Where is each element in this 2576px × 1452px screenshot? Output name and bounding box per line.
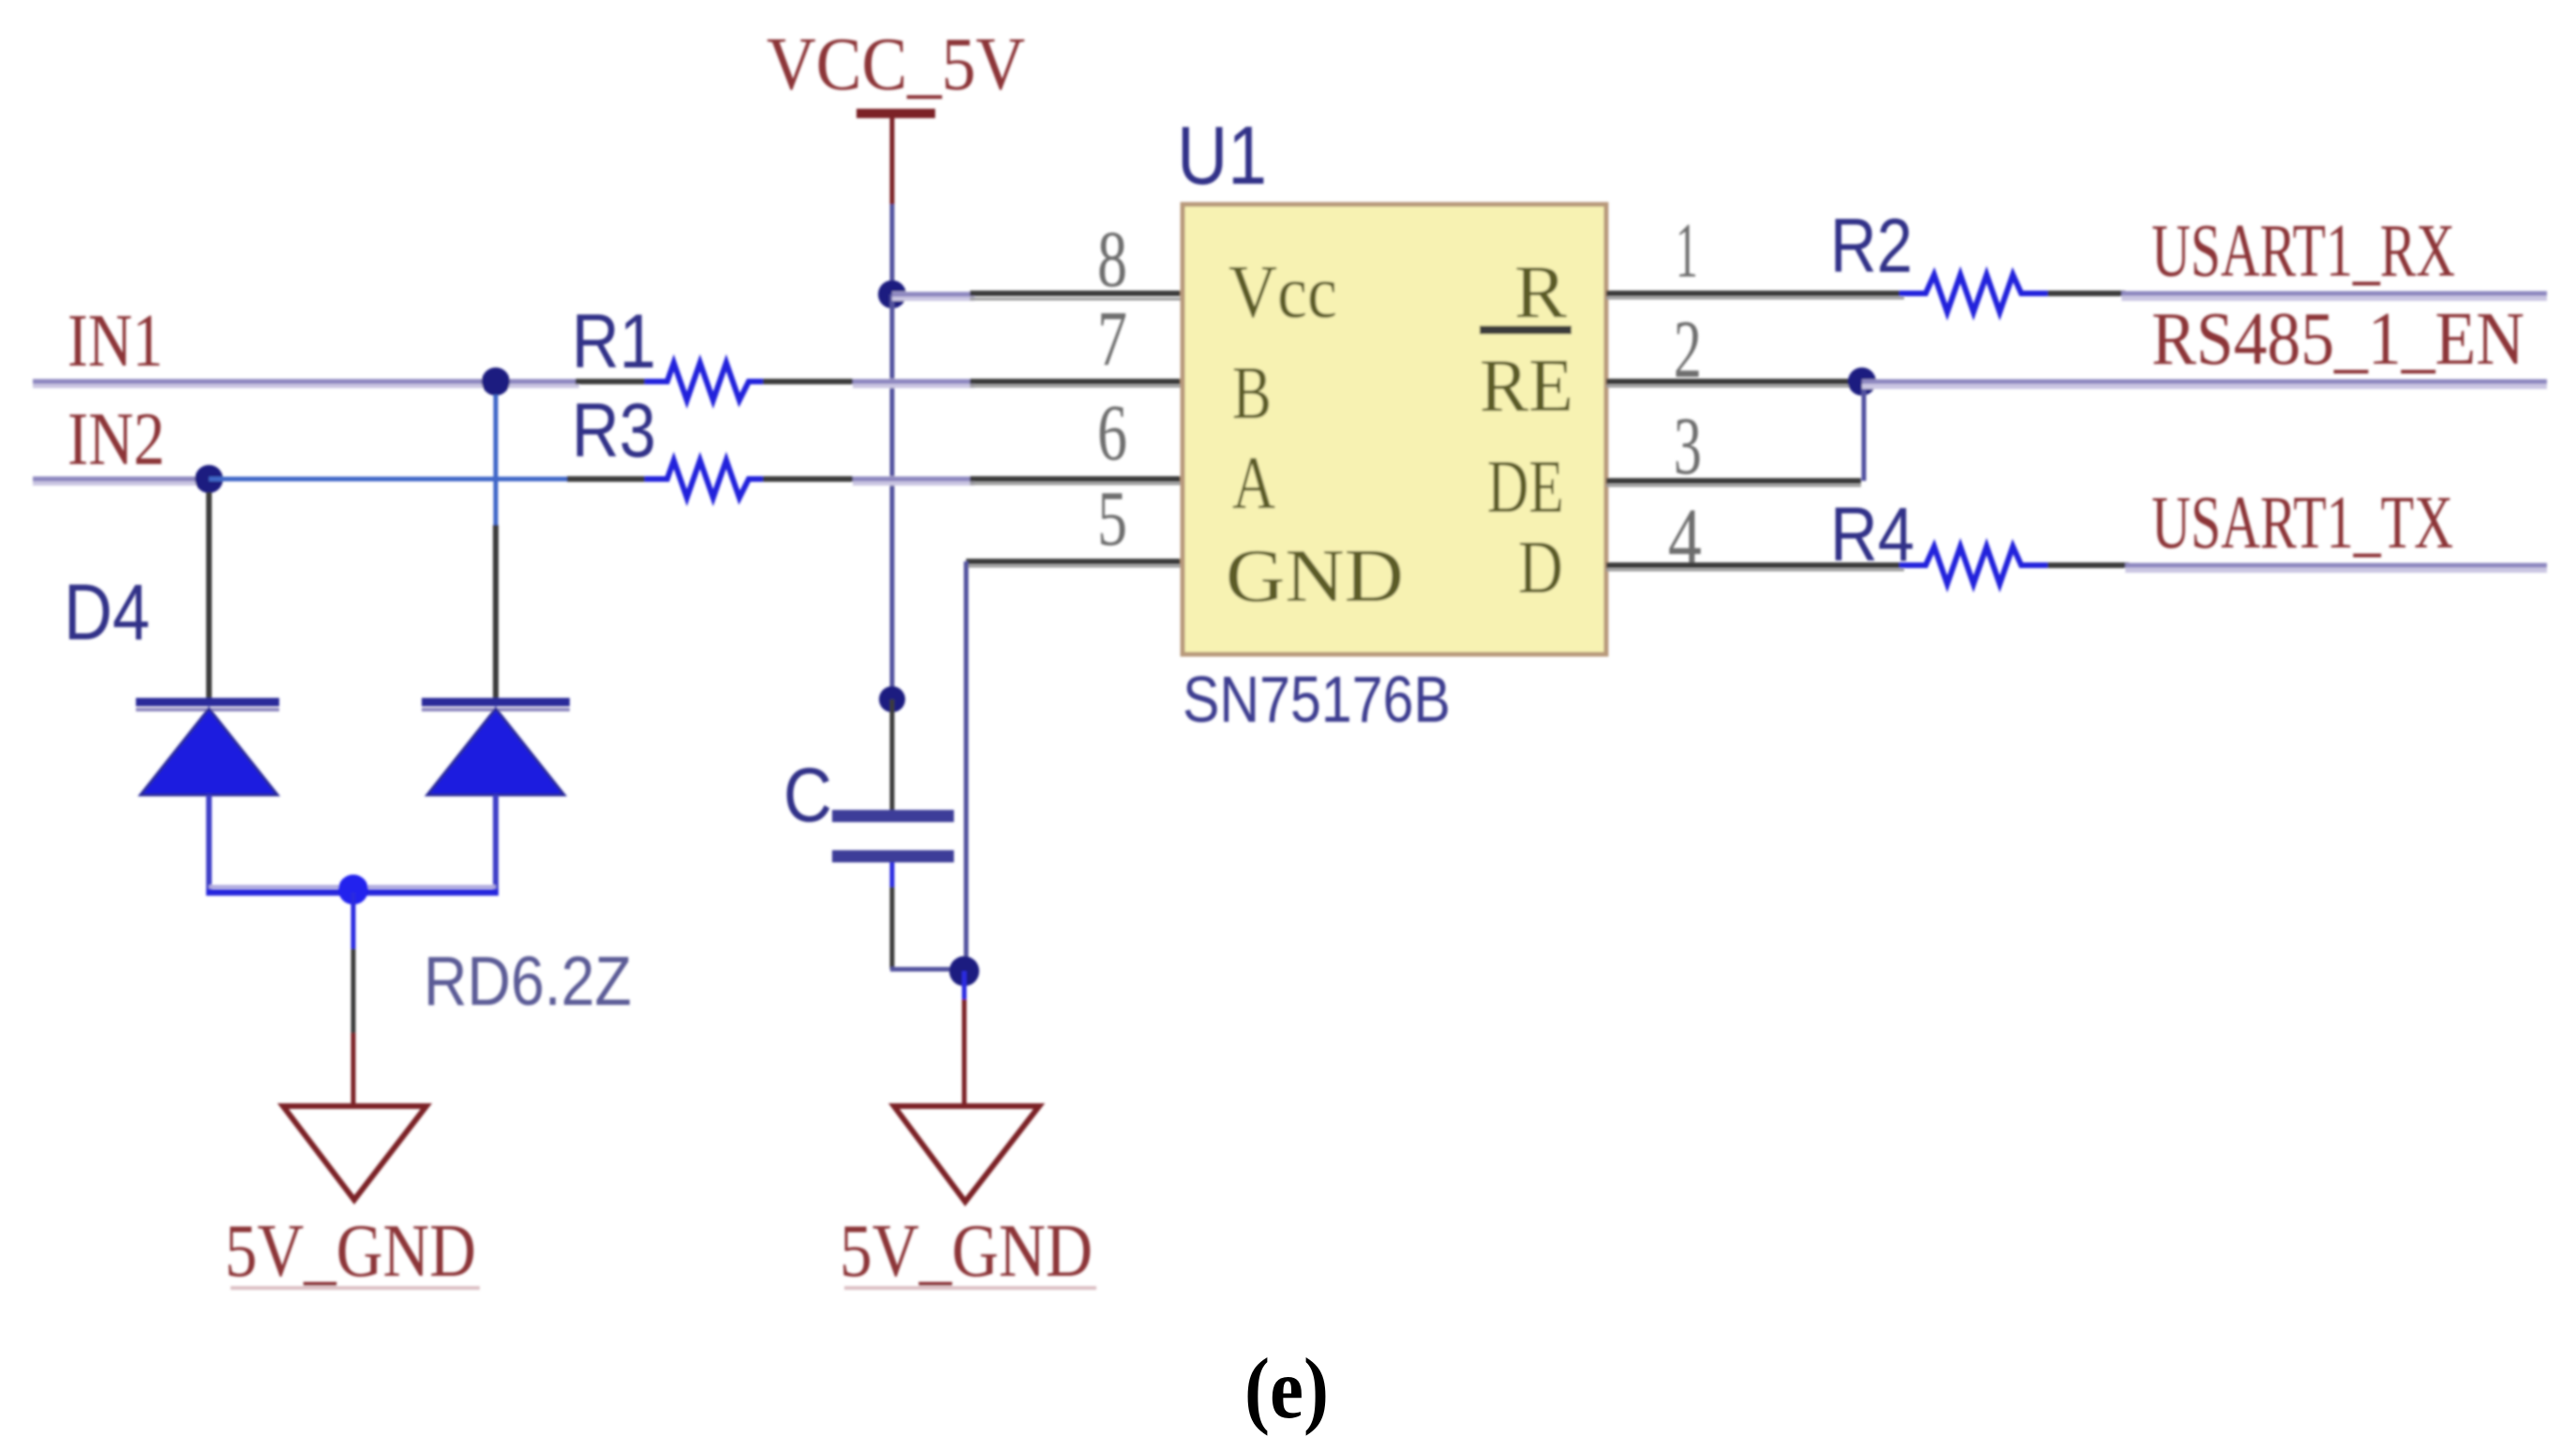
- diode D4a triangle: [141, 709, 277, 795]
- svg-text:D4: D4: [64, 568, 150, 656]
- junction above capacitor: [879, 686, 905, 712]
- svg-text:RS485_1_EN: RS485_1_EN: [2152, 298, 2524, 381]
- svg-text:DE: DE: [1487, 446, 1564, 529]
- svg-text:A: A: [1232, 442, 1275, 525]
- capacitor C bottom plate: [832, 850, 954, 862]
- wire IN2 purple: [33, 476, 211, 486]
- power symbol VCC_5V bar: [856, 109, 935, 118]
- svg-text:RE: RE: [1480, 345, 1573, 427]
- wire VCC vertical maroon: [890, 118, 895, 204]
- wire cap bottom lead blue: [890, 862, 895, 887]
- svg-text:R3: R3: [572, 388, 656, 473]
- wire D4a anode down: [206, 795, 212, 892]
- wire pin4 black: [1606, 562, 1904, 568]
- pin name RE overline: [1480, 326, 1571, 335]
- wire cap bottom lead black: [890, 887, 895, 969]
- diode D4a cathode bar: [136, 698, 279, 707]
- wire pin1 black after R2: [2047, 291, 2125, 296]
- wire VCC vertical slate: [890, 204, 895, 294]
- wire IN2 blue segment: [209, 477, 570, 482]
- wire pin2 black: [1606, 385, 1862, 388]
- wire row B purple mid: [853, 379, 975, 388]
- wire IN1 purple: [33, 379, 579, 388]
- wire IN2 junction down: [206, 492, 212, 699]
- wire D4b anode down: [493, 795, 499, 892]
- svg-text:IN1: IN1: [67, 300, 163, 382]
- svg-text:5: 5: [1097, 475, 1127, 562]
- wire USART1_TX purple: [2125, 563, 2547, 573]
- junction IN2: [195, 465, 223, 493]
- wire USART1_RX purple: [2122, 292, 2547, 301]
- wire row A purple from VCC junction: [892, 292, 975, 301]
- resistor R2: [1899, 275, 2047, 312]
- wire to left ground blue: [351, 892, 356, 949]
- capacitor C top plate: [832, 810, 954, 822]
- wire R1 to purple: [763, 379, 856, 384]
- junction cap gnd: [949, 956, 979, 986]
- svg-text:6: 6: [1097, 387, 1127, 477]
- wire IN1 junction down black: [493, 525, 499, 699]
- op-amp U1 body: [1183, 204, 1606, 654]
- svg-text:IN2: IN2: [67, 398, 165, 481]
- svg-text:SN75176B: SN75176B: [1183, 663, 1451, 736]
- svg-text:USART1_TX: USART1_TX: [2152, 482, 2453, 564]
- underline 5V_GND right: [844, 1286, 1096, 1290]
- junction diode common: [338, 875, 368, 905]
- wire VCC down to cap: [890, 294, 895, 699]
- wire GND pin5 horizontal: [966, 559, 1183, 564]
- wire to left ground maroon: [351, 1033, 356, 1106]
- wire below junction maroon: [962, 999, 967, 1106]
- wire row A black to pin 8: [970, 298, 1183, 301]
- wire pin1 black: [1606, 291, 1904, 296]
- svg-text:7: 7: [1097, 295, 1127, 382]
- wire to left ground black: [351, 949, 356, 1033]
- wire IN2 black to R3: [567, 476, 648, 482]
- svg-text:C: C: [783, 753, 832, 838]
- wire IN1 junction down blue: [494, 395, 499, 525]
- junction IN1: [482, 367, 510, 396]
- svg-text:B: B: [1232, 352, 1272, 435]
- wire GND vertical: [964, 561, 969, 971]
- resistor R4: [1899, 546, 2047, 584]
- wire pin3 up to junction: [1862, 389, 1867, 481]
- junction VCC pin8: [878, 280, 906, 308]
- ground 5V_GND right triangle: [894, 1106, 1039, 1202]
- wire IN1 black to R1: [575, 379, 648, 384]
- wire pin4 black after R4: [2047, 562, 2129, 568]
- svg-text:RD6.2Z: RD6.2Z: [424, 942, 632, 1020]
- svg-text:U1: U1: [1177, 109, 1267, 202]
- diode D4b cathode bar: [422, 698, 570, 707]
- resistor R3: [645, 460, 763, 498]
- wire diode common bar: [209, 885, 496, 889]
- svg-text:5V_GND: 5V_GND: [840, 1210, 1093, 1293]
- diode D4b triangle: [427, 709, 564, 795]
- wire pin3 black: [1606, 485, 1861, 487]
- svg-text:8: 8: [1097, 214, 1127, 304]
- resistor R1: [645, 363, 763, 400]
- svg-text:R: R: [1514, 251, 1568, 334]
- svg-text:D: D: [1518, 527, 1563, 609]
- wire RS485_1_EN purple: [1862, 380, 2547, 389]
- underline 5V_GND left: [231, 1286, 480, 1290]
- svg-text:5V_GND: 5V_GND: [225, 1210, 476, 1293]
- svg-text:1: 1: [1675, 207, 1698, 294]
- junction pin2: [1848, 367, 1876, 396]
- svg-text:USART1_RX: USART1_RX: [2152, 210, 2455, 292]
- svg-text:R2: R2: [1830, 203, 1913, 289]
- wire row C purple mid: [853, 476, 975, 486]
- ground 5V_GND left triangle: [283, 1106, 426, 1200]
- wire R3 to purple: [763, 476, 856, 482]
- wire cap bottom corner: [890, 967, 964, 972]
- svg-text:Vcc: Vcc: [1228, 251, 1337, 334]
- wire below junction blue: [962, 971, 967, 999]
- svg-text:VCC_5V: VCC_5V: [767, 23, 1025, 106]
- svg-text:R1: R1: [572, 299, 656, 384]
- svg-text:GND: GND: [1226, 535, 1404, 618]
- svg-text:(e): (e): [1244, 1340, 1329, 1436]
- wire cap top lead: [890, 699, 895, 812]
- wire row B black to pin 7: [970, 385, 1183, 388]
- wire row C black to pin 6: [970, 483, 1183, 486]
